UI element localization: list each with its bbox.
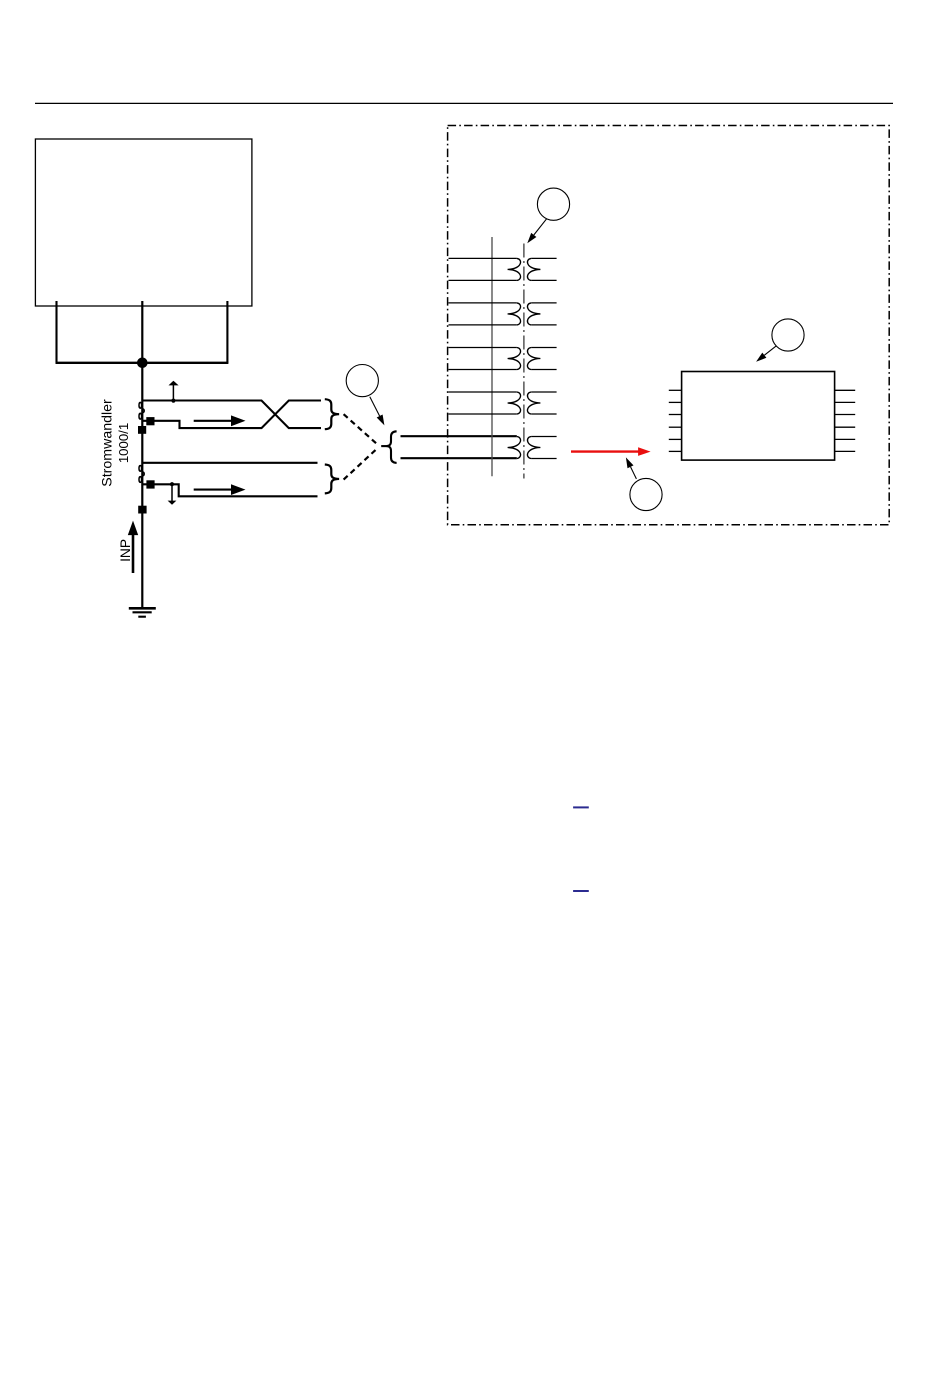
brace pair1 xyxy=(325,399,339,429)
callout circle A (transformer) xyxy=(537,188,569,220)
winding unit 1 primary leads xyxy=(449,257,517,259)
winding unit 4 primary coil xyxy=(508,392,521,414)
top horizontal rule xyxy=(35,102,893,104)
dashed leader from brace2 xyxy=(344,450,376,480)
dashed leader from brace1 xyxy=(344,414,377,443)
dash-dot enclosure box xyxy=(448,126,890,525)
current direction arrow 2 xyxy=(194,489,232,491)
winding unit 2 secondary leads xyxy=(531,302,556,304)
winding unit 3 primary coil xyxy=(508,348,521,370)
callout circle B (IC) xyxy=(772,319,804,351)
wire pair2 bottom xyxy=(143,484,318,496)
winding unit 1 secondary leads xyxy=(531,257,556,259)
svg-text:1000/1: 1000/1 xyxy=(116,423,131,463)
junction node xyxy=(137,358,148,369)
label INP xyxy=(118,539,133,562)
winding unit 3 secondary coil xyxy=(527,348,540,370)
IC right pins xyxy=(835,390,856,451)
block box (power source) xyxy=(35,139,252,306)
wire pair1 bottom with crossover xyxy=(143,401,321,429)
IC block box xyxy=(682,372,835,461)
transformer primary bus line xyxy=(491,237,493,476)
winding unit 3 primary leads xyxy=(449,347,517,349)
winding unit 3 secondary leads xyxy=(531,347,556,349)
winding unit 2 primary leads xyxy=(449,302,517,304)
brace pair2 xyxy=(325,465,339,494)
current direction arrow 1 xyxy=(194,420,232,422)
callout circle C (red arrow) xyxy=(630,478,662,510)
terminal square S4 (on line below winding2) xyxy=(138,506,146,514)
INP input arrow xyxy=(132,535,135,574)
wire to transformer bottom xyxy=(401,457,517,459)
winding unit 2 primary coil xyxy=(508,303,521,325)
callout circle D (combined brace) xyxy=(346,365,378,397)
polarity arrow up on pair1 xyxy=(171,399,175,403)
winding unit 5 secondary leads xyxy=(531,436,556,438)
terminal square S3 (winding2 secondary tap) xyxy=(146,480,154,488)
combined brace (left) with tail xyxy=(387,431,397,463)
transformer core dash-dot line xyxy=(523,244,525,479)
winding unit 4 secondary coil xyxy=(527,392,540,414)
ground symbol xyxy=(129,608,156,616)
winding unit 2 secondary coil xyxy=(527,303,540,325)
CT primary winding 1 xyxy=(139,402,142,408)
wire bus horizontal xyxy=(56,362,229,364)
terminal square S1 (winding1 secondary tap) xyxy=(146,417,154,425)
wire pair2 top xyxy=(143,462,318,464)
terminal square S2 (on line below winding1) xyxy=(138,426,146,434)
svg-text:Stromwandler: Stromwandler xyxy=(100,399,116,487)
red signal arrow xyxy=(571,450,639,452)
wire pair1 top with crossover xyxy=(143,401,321,429)
polarity arrow down on pair2 xyxy=(170,482,174,486)
winding unit 1 primary coil xyxy=(508,258,521,280)
CT primary winding 2 xyxy=(139,466,142,472)
wire drop right xyxy=(226,301,228,363)
navy line 2 xyxy=(573,890,589,892)
winding unit 5 primary coil xyxy=(508,437,521,459)
wire to transformer top xyxy=(401,435,517,437)
main vertical conductor xyxy=(141,301,143,607)
wire drop left xyxy=(55,301,57,363)
winding unit 4 primary leads xyxy=(449,391,517,393)
winding unit 4 secondary leads xyxy=(531,391,556,393)
winding unit 1 secondary coil xyxy=(527,258,540,280)
svg-text:INP: INP xyxy=(118,539,133,562)
IC left pins xyxy=(669,390,682,451)
winding unit 5 secondary coil xyxy=(527,437,540,459)
label Stromwandler 1000/1 xyxy=(100,399,116,487)
navy line 1 xyxy=(573,806,589,808)
